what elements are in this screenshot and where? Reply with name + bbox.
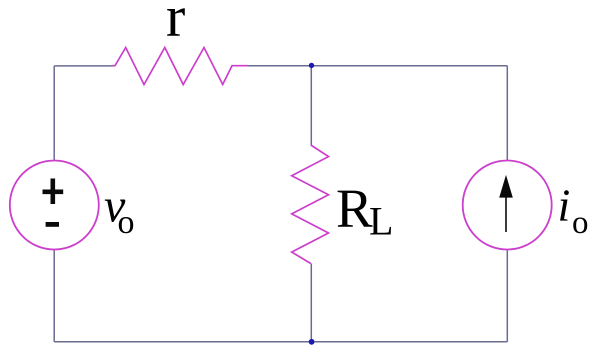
svg-text:L: L (369, 199, 393, 244)
svg-text:o: o (572, 205, 589, 241)
svg-text:R: R (336, 178, 373, 239)
svg-text:i: i (558, 180, 571, 231)
svg-text:o: o (118, 204, 135, 241)
svg-text:r: r (166, 0, 185, 49)
